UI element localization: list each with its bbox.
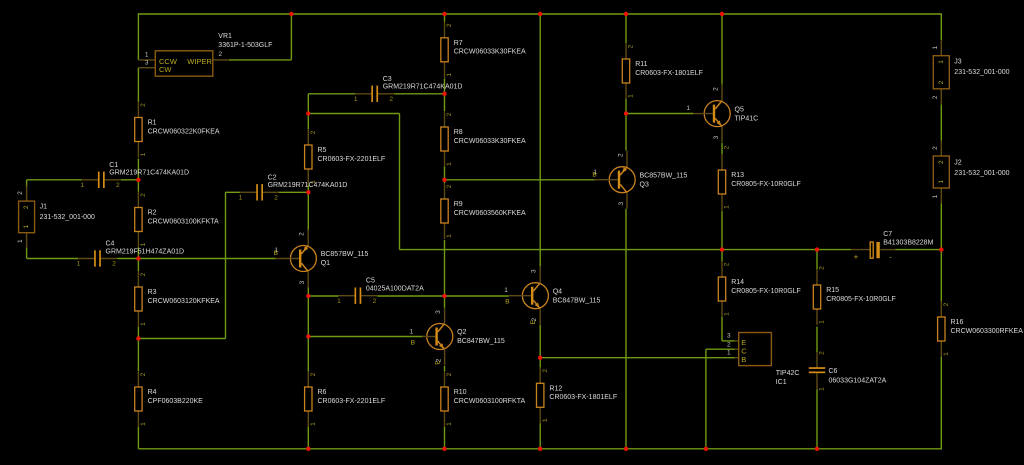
svg-text:B: B xyxy=(274,250,278,257)
svg-text:R16: R16 xyxy=(951,319,964,326)
transistor Q5 xyxy=(693,85,758,143)
svg-text:CR0603-FX-2201ELF: CR0603-FX-2201ELF xyxy=(318,398,386,405)
svg-text:2: 2 xyxy=(23,205,30,209)
svg-text:3: 3 xyxy=(531,269,538,273)
svg-text:R5: R5 xyxy=(318,147,327,154)
potentiometer VR1 xyxy=(138,33,272,76)
svg-text:1: 1 xyxy=(932,46,939,50)
connector J2 xyxy=(932,141,1010,204)
resistor R3 xyxy=(135,271,220,327)
wire C7-rail junction to R16 xyxy=(940,250,942,301)
wire C2 junction to Q1 emitter xyxy=(307,192,309,230)
svg-text:2: 2 xyxy=(712,87,719,91)
wire C7 rail left segment xyxy=(400,249,852,251)
svg-text:R8: R8 xyxy=(454,129,463,136)
svg-text:3: 3 xyxy=(713,135,720,139)
svg-text:2: 2 xyxy=(140,272,147,276)
transistor Q1 xyxy=(275,230,369,288)
svg-text:1: 1 xyxy=(819,320,826,324)
wire Q2-base junction down to R6 xyxy=(307,337,309,372)
wire VR1 pin1 riser xyxy=(137,13,139,60)
svg-text:1: 1 xyxy=(943,352,950,356)
svg-text:GRM219R71C474KA01D: GRM219R71C474KA01D xyxy=(268,182,348,189)
transistor Q4 xyxy=(508,267,601,325)
svg-text:1: 1 xyxy=(938,180,945,184)
svg-text:Q1: Q1 xyxy=(321,260,330,267)
svg-text:GRM219R71C474KA01D: GRM219R71C474KA01D xyxy=(109,170,189,177)
resistor R10 xyxy=(441,371,526,427)
svg-text:1: 1 xyxy=(446,73,453,77)
wire IC1 pin2 drop to bottom rail xyxy=(705,349,707,449)
svg-text:R6: R6 xyxy=(318,389,327,396)
svg-text:CR0805-FX-10R0GLF: CR0805-FX-10R0GLF xyxy=(826,296,896,303)
resistor R4 xyxy=(135,371,203,427)
wire IC1 pin2 (C) left xyxy=(706,348,735,350)
svg-text:CRCW0603100RFKTA: CRCW0603100RFKTA xyxy=(454,398,526,405)
svg-text:C1: C1 xyxy=(109,162,118,169)
connector J1 xyxy=(17,186,95,249)
wire right rail top segment xyxy=(940,13,942,40)
svg-text:06033G104ZAT2A: 06033G104ZAT2A xyxy=(829,378,887,385)
wire Q4 base wire xyxy=(445,295,510,297)
resistor R5 xyxy=(305,129,386,185)
resistor R7 xyxy=(441,22,526,78)
wire C1 to junction at R column xyxy=(121,179,139,181)
svg-text:R4: R4 xyxy=(148,389,157,396)
svg-text:3: 3 xyxy=(435,310,442,314)
svg-text:3: 3 xyxy=(145,60,149,67)
svg-text:2: 2 xyxy=(274,194,278,201)
resistor R9 xyxy=(441,183,526,239)
junction C7 rail at R13/R14 xyxy=(720,247,724,251)
svg-text:E: E xyxy=(434,360,441,365)
svg-text:IC1: IC1 xyxy=(776,379,787,386)
resistor R15 xyxy=(813,266,896,325)
resistor R12 xyxy=(537,367,618,423)
svg-text:2: 2 xyxy=(724,262,731,266)
junction R11/Q5 base/Q3 collector xyxy=(624,111,628,115)
capacitor C6 xyxy=(809,351,887,391)
wire C3 pin1 corner to R5 top junction xyxy=(307,94,309,114)
svg-text:B: B xyxy=(741,355,746,364)
svg-text:TIP41C: TIP41C xyxy=(735,115,759,122)
wire C4 junction to R3 xyxy=(137,259,139,272)
wire C5 wire from Q1 collector junction xyxy=(308,295,338,297)
junction C4/R2/R3/Q1 base xyxy=(136,256,140,260)
wire Q2 collector riser xyxy=(444,296,446,308)
svg-text:B41303B8228M: B41303B8228M xyxy=(883,240,933,247)
svg-text:231-532_001-000: 231-532_001-000 xyxy=(954,170,1009,177)
svg-text:1: 1 xyxy=(354,96,358,103)
wire R2 to C4 junction xyxy=(137,248,139,259)
svg-text:R9: R9 xyxy=(454,201,463,208)
svg-text:1: 1 xyxy=(938,60,945,64)
svg-text:R7: R7 xyxy=(454,40,463,47)
svg-text:2: 2 xyxy=(617,153,624,157)
svg-text:1: 1 xyxy=(140,242,147,246)
wire R10 to bottom rail xyxy=(444,427,446,449)
svg-text:R12: R12 xyxy=(549,386,562,393)
svg-text:R1: R1 xyxy=(148,120,157,127)
svg-text:BC857BW_115: BC857BW_115 xyxy=(640,172,688,179)
svg-text:2: 2 xyxy=(818,351,825,355)
wire Q4 emitter junction to IC1 pin1 (B) xyxy=(540,357,734,359)
wire R8 bottom to Q3-base junction xyxy=(444,166,446,180)
svg-text:J2: J2 xyxy=(954,159,962,166)
resistor R6 xyxy=(305,371,386,427)
svg-text:2: 2 xyxy=(938,160,945,164)
polarized capacitor C7 xyxy=(851,231,934,261)
wire R16 to bottom rail xyxy=(940,357,942,450)
wire Q2 collector to C5 junction xyxy=(444,295,446,297)
wire Q2 base wire xyxy=(308,336,423,338)
junction Q1-Q2 base node xyxy=(306,334,310,338)
svg-text:CPF0603B220KE: CPF0603B220KE xyxy=(148,398,204,405)
wire mid riser down xyxy=(399,114,401,250)
svg-text:2: 2 xyxy=(819,266,826,270)
svg-text:B: B xyxy=(411,340,415,347)
svg-text:1: 1 xyxy=(140,422,147,426)
svg-text:1: 1 xyxy=(337,298,341,305)
wire C3 wire left segment xyxy=(308,93,355,95)
svg-text:CRCW0603120KFKEA: CRCW0603120KFKEA xyxy=(148,298,220,305)
svg-text:VR1: VR1 xyxy=(218,33,232,40)
svg-text:C5: C5 xyxy=(366,278,375,285)
svg-text:2: 2 xyxy=(116,182,120,189)
wire R5 to C2 junction xyxy=(307,185,309,192)
svg-text:3: 3 xyxy=(618,202,625,206)
capacitor C3 xyxy=(354,76,463,103)
svg-text:R11: R11 xyxy=(635,61,647,68)
svg-text:2: 2 xyxy=(446,372,453,376)
wire R14 top to C7-rail junction xyxy=(721,250,723,261)
wire R11 bottom to Q5-base junction xyxy=(625,99,627,114)
resistor R16 xyxy=(938,301,1024,357)
svg-text:2: 2 xyxy=(17,191,24,195)
svg-text:R14: R14 xyxy=(731,279,744,286)
wire bottom rail xyxy=(138,448,941,450)
transistor Q3 xyxy=(594,151,687,209)
wire Q5 base wire xyxy=(626,113,693,115)
svg-text:1: 1 xyxy=(140,152,147,156)
capacitor C1 xyxy=(80,162,189,189)
wire Q1 collector to C5 junction xyxy=(307,288,309,297)
svg-text:2: 2 xyxy=(389,96,393,103)
svg-text:J3: J3 xyxy=(954,58,962,65)
svg-text:-: - xyxy=(889,252,892,261)
wire Q4 emitter to R12 junction xyxy=(539,325,541,358)
svg-text:CRCW060322K0FKEA: CRCW060322K0FKEA xyxy=(148,128,220,135)
svg-text:2: 2 xyxy=(446,23,453,27)
svg-text:BC847BW_115: BC847BW_115 xyxy=(553,297,601,304)
wire R14 bottom corner xyxy=(721,317,723,341)
svg-text:GRM219F51H474ZA01D: GRM219F51H474ZA01D xyxy=(106,248,185,255)
wire R15 top to C7-rail junction xyxy=(816,250,818,269)
wire C2 pin2 to R5 column junction xyxy=(279,191,308,193)
svg-text:2: 2 xyxy=(140,103,147,107)
svg-text:Q3: Q3 xyxy=(640,181,649,188)
connector J3 xyxy=(932,40,1010,104)
junction C1/R1/R2 xyxy=(136,178,140,182)
svg-text:231-532_001-000: 231-532_001-000 xyxy=(954,69,1009,76)
svg-text:1: 1 xyxy=(446,162,453,166)
svg-text:1: 1 xyxy=(310,422,317,426)
junction Q1 collector/C5 xyxy=(306,294,310,298)
junction R9/C5/Q4 base/Q2 collector xyxy=(442,294,446,298)
svg-text:1: 1 xyxy=(410,329,414,336)
svg-text:2: 2 xyxy=(932,95,939,99)
wire R11 top from rail xyxy=(625,14,627,43)
svg-text:231-532_001-000: 231-532_001-000 xyxy=(40,214,95,221)
svg-text:3361P-1-503GLF: 3361P-1-503GLF xyxy=(218,42,272,49)
svg-text:CRCW0603300RFKEA: CRCW0603300RFKEA xyxy=(951,328,1024,335)
svg-text:2: 2 xyxy=(299,232,306,236)
svg-text:CR0805-FX-10R0GLF: CR0805-FX-10R0GLF xyxy=(731,181,801,188)
wire R6 to bottom rail xyxy=(307,427,309,449)
wire J1 pin2 to C1 xyxy=(27,179,82,181)
svg-text:1: 1 xyxy=(446,234,453,238)
wire Q4 collector riser to top rail xyxy=(539,14,541,267)
wire Q2 emitter to R10 xyxy=(444,366,446,371)
svg-text:1: 1 xyxy=(239,194,243,201)
svg-text:R10: R10 xyxy=(454,389,467,396)
wire J1 pin1 to C4 xyxy=(27,258,78,260)
junction C7 rail at R15 xyxy=(815,247,819,251)
resistor R1 xyxy=(135,102,220,158)
svg-text:2: 2 xyxy=(310,372,317,376)
junction dots on bottom rail xyxy=(306,447,310,451)
svg-text:2: 2 xyxy=(373,298,377,305)
svg-text:B: B xyxy=(592,172,596,179)
wire Q5 collector to top rail xyxy=(721,14,723,85)
svg-text:1: 1 xyxy=(504,287,508,294)
svg-text:1: 1 xyxy=(932,194,939,198)
capacitor C2 xyxy=(239,174,348,201)
svg-text:1: 1 xyxy=(77,261,81,268)
wire C6 to bottom rail xyxy=(816,390,818,449)
svg-text:CR0603-FX-2201ELF: CR0603-FX-2201ELF xyxy=(318,156,386,163)
svg-text:1: 1 xyxy=(446,422,453,426)
svg-text:1: 1 xyxy=(724,312,731,316)
resistor R8 xyxy=(441,111,526,167)
svg-text:1: 1 xyxy=(17,239,24,243)
transistor Q2 xyxy=(422,308,505,366)
svg-text:2: 2 xyxy=(310,130,317,134)
transistor IC1 (TIP42C box symbol) xyxy=(727,333,799,386)
wire C1 junction to R2 xyxy=(137,180,139,192)
svg-text:2: 2 xyxy=(938,80,945,84)
svg-text:2: 2 xyxy=(628,44,635,48)
wire R4 to bottom rail xyxy=(137,427,139,449)
svg-text:CW: CW xyxy=(159,65,172,74)
svg-text:2: 2 xyxy=(727,342,731,349)
wire R13 bottom to C7-rail junction xyxy=(721,211,723,250)
wire C2 branch riser xyxy=(225,192,227,338)
wire R5 top junction down to R5 xyxy=(307,114,309,130)
svg-text:BC857BW_115: BC857BW_115 xyxy=(321,251,369,258)
junction R5/C3/mid-riser xyxy=(306,111,310,115)
svg-text:C6: C6 xyxy=(829,368,838,375)
svg-text:1: 1 xyxy=(23,224,30,228)
wire Q3 base wire xyxy=(445,179,596,181)
wire R1 to C1 junction xyxy=(137,159,139,180)
svg-text:Q4: Q4 xyxy=(553,288,562,295)
wire top rail xyxy=(138,13,941,15)
capacitor C5 xyxy=(337,278,424,305)
svg-text:R3: R3 xyxy=(148,289,157,296)
svg-text:Q5: Q5 xyxy=(735,106,744,113)
wire J1 pin1 drop xyxy=(26,247,28,259)
wire R7 top from rail xyxy=(444,14,446,22)
junction Q4 emitter/R12/IC1 base xyxy=(538,356,542,360)
wire C3 pin2 to R7 column junction xyxy=(394,93,445,95)
svg-text:R2: R2 xyxy=(148,210,157,217)
resistor R13 xyxy=(718,145,801,210)
junction R8/R9/Q3 base xyxy=(442,178,446,182)
wire J3 to J2 segment xyxy=(940,104,942,140)
wire R15 bottom to C6 xyxy=(816,327,818,353)
svg-text:2: 2 xyxy=(218,51,222,58)
svg-text:CRCW0603100KFKTA: CRCW0603100KFKTA xyxy=(148,218,219,225)
svg-text:2: 2 xyxy=(943,302,950,306)
svg-text:2: 2 xyxy=(724,145,731,149)
resistor R2 xyxy=(135,192,219,248)
svg-text:1: 1 xyxy=(818,387,825,391)
svg-text:1: 1 xyxy=(145,52,149,59)
svg-text:1: 1 xyxy=(628,94,635,98)
svg-text:2: 2 xyxy=(112,261,116,268)
svg-text:2: 2 xyxy=(140,193,147,197)
svg-text:CR0603-FX-1801ELF: CR0603-FX-1801ELF xyxy=(549,394,617,401)
wire C5 pin2 to junction xyxy=(377,295,444,297)
svg-text:2: 2 xyxy=(932,146,939,150)
svg-text:3: 3 xyxy=(299,280,306,284)
junction C7 rail at right rail xyxy=(939,247,943,251)
wire C7 pin2 to right rail xyxy=(895,249,941,251)
junction R3/R4/C2 branch xyxy=(136,336,140,340)
svg-text:E: E xyxy=(530,319,537,324)
svg-text:04025A100DAT2A: 04025A100DAT2A xyxy=(366,286,424,293)
svg-text:2: 2 xyxy=(140,372,147,376)
svg-text:1: 1 xyxy=(80,182,84,189)
svg-text:C7: C7 xyxy=(883,231,892,238)
svg-text:1: 1 xyxy=(727,350,731,357)
svg-text:TIP42C: TIP42C xyxy=(776,370,800,377)
svg-text:C4: C4 xyxy=(106,241,115,248)
capacitor C4 xyxy=(77,241,184,268)
svg-text:CR0805-FX-10R0GLF: CR0805-FX-10R0GLF xyxy=(731,288,801,295)
resistor R11 xyxy=(622,43,703,99)
wire Q5 emitter to R13 xyxy=(721,143,723,154)
svg-text:CRCW06033K30FKEA: CRCW06033K30FKEA xyxy=(454,138,526,145)
svg-text:2: 2 xyxy=(446,184,453,188)
svg-text:BC847BW_115: BC847BW_115 xyxy=(457,338,505,345)
wire C2 branch to C2 pin1 xyxy=(226,191,241,193)
svg-text:+: + xyxy=(854,252,859,261)
wire R9 bottom to C5 junction xyxy=(444,240,446,296)
resistor R14 xyxy=(718,261,801,317)
svg-text:C2: C2 xyxy=(268,174,277,181)
wire R12 junction down xyxy=(539,358,541,369)
wire VR1 pin2 to top rail xyxy=(229,59,291,61)
wire C5 junction down to Q2-base junction xyxy=(307,296,309,337)
svg-text:CRCW06033K30FKEA: CRCW06033K30FKEA xyxy=(454,49,526,56)
wire Q3 emitter down to bottom rail xyxy=(625,209,627,449)
wire J1 pin2 riser xyxy=(26,180,28,188)
svg-text:CR0603-FX-1801ELF: CR0603-FX-1801ELF xyxy=(635,70,703,77)
svg-text:B: B xyxy=(505,299,509,306)
junction dots on top rail xyxy=(289,12,293,16)
svg-text:R13: R13 xyxy=(731,172,744,179)
wire Q3-base junction to R9 xyxy=(444,180,446,183)
wire node to R4 xyxy=(137,339,139,372)
svg-text:Q2: Q2 xyxy=(457,329,466,336)
wire IC1 pin3 (E) to R14 xyxy=(722,340,735,342)
svg-text:1: 1 xyxy=(140,322,147,326)
wire J2 to C7-rail junction xyxy=(940,204,942,250)
wire VR1 pin3 down to R1 xyxy=(137,68,139,102)
wire C4 junction to Q1 base xyxy=(138,258,276,260)
svg-text:GRM219R71C474KA01D: GRM219R71C474KA01D xyxy=(383,84,463,91)
wire C3 junction to R8 xyxy=(444,94,446,111)
wire Q5-base junction to Q3 collector xyxy=(625,114,627,151)
svg-text:WIPER: WIPER xyxy=(187,57,212,66)
junction C2/R5/Q1 emitter xyxy=(306,190,310,194)
svg-text:3: 3 xyxy=(727,333,731,340)
svg-text:1: 1 xyxy=(724,205,731,209)
wire C4 to junction xyxy=(117,258,138,260)
wire R3 to node junction xyxy=(137,327,139,339)
svg-text:1: 1 xyxy=(542,418,549,422)
svg-text:2: 2 xyxy=(542,369,549,373)
svg-text:2: 2 xyxy=(446,112,453,116)
svg-text:CRCW0603560KFKEA: CRCW0603560KFKEA xyxy=(454,210,526,217)
wire R7 bottom to C3 junction xyxy=(444,78,446,94)
svg-text:C3: C3 xyxy=(383,76,392,83)
svg-text:1: 1 xyxy=(686,105,690,112)
junction C3/R7 xyxy=(442,92,446,96)
wire R5 junction to mid riser xyxy=(308,113,399,115)
svg-text:J1: J1 xyxy=(40,204,48,211)
wire R3 junction to C2 branch xyxy=(138,338,225,340)
wire R12 to bottom rail xyxy=(539,423,541,449)
svg-text:R15: R15 xyxy=(826,287,839,294)
